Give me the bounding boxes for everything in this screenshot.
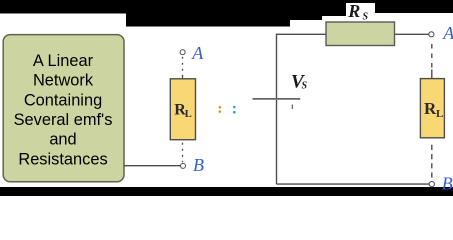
svg-text:L: L — [185, 109, 192, 120]
svg-text:B: B — [193, 155, 204, 175]
svg-text:A Linear: A Linear — [33, 52, 94, 70]
svg-text:R: R — [347, 1, 360, 21]
svg-text:B: B — [442, 173, 453, 193]
svg-text:and: and — [49, 131, 76, 149]
svg-text:S: S — [363, 11, 369, 22]
svg-text:Resistances: Resistances — [18, 150, 107, 168]
svg-text:Several emf's: Several emf's — [14, 111, 113, 129]
svg-text:A: A — [191, 43, 204, 63]
svg-text:S: S — [302, 81, 308, 92]
svg-text:Network: Network — [33, 72, 94, 90]
svg-text:A: A — [442, 23, 453, 43]
svg-text:Containing: Containing — [24, 91, 102, 109]
svg-text:L: L — [436, 108, 443, 120]
